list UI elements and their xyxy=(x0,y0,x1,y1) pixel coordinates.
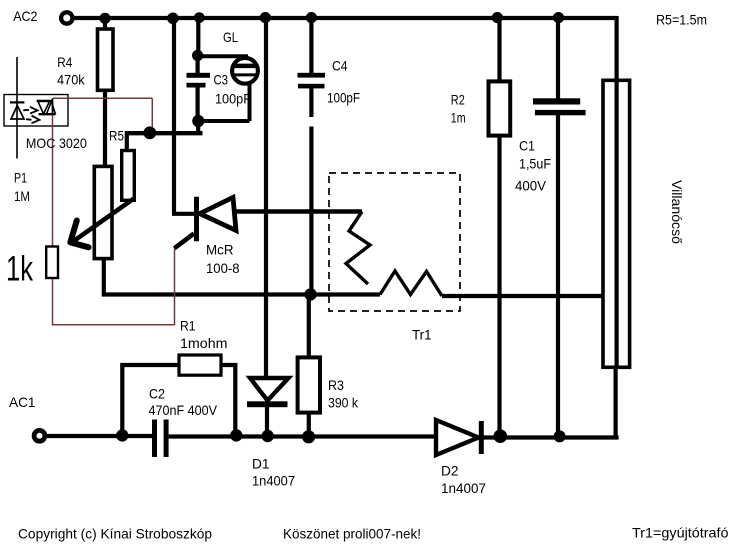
wire R5 top horizontal xyxy=(127,131,203,135)
svg-text:1,5uF: 1,5uF xyxy=(519,156,551,172)
optocoupler triac triangle A xyxy=(47,102,56,114)
wire flash tube top feed xyxy=(614,16,618,80)
svg-text:C3: C3 xyxy=(214,72,229,88)
resistor R3 body xyxy=(298,357,320,412)
svg-text:1M: 1M xyxy=(14,188,30,204)
resistor R2 body xyxy=(489,81,511,135)
wire trigger rail (P1 bottom to Tr1) xyxy=(104,259,380,295)
wire trigger rail right to tube xyxy=(442,294,602,298)
capacitor C2 left plate xyxy=(152,420,157,458)
wire GL block lower stub xyxy=(196,121,200,133)
optocoupler triac lead xyxy=(52,98,54,115)
wire R5 top lead xyxy=(125,131,129,151)
svg-text:R5: R5 xyxy=(109,128,124,144)
svg-text:D1: D1 xyxy=(252,456,270,472)
thyristor McR gate lead xyxy=(174,234,194,249)
capacitor C1 bottom plate xyxy=(535,110,586,115)
svg-text:1n4007: 1n4007 xyxy=(252,473,295,489)
svg-text:100pF: 100pF xyxy=(215,91,251,107)
node rail-R2 xyxy=(492,12,503,23)
svg-text:C1: C1 xyxy=(519,138,535,154)
neon lamp GL electrodes xyxy=(233,64,258,69)
svg-text:400V: 400V xyxy=(515,178,547,194)
wire through flash tube xyxy=(614,79,618,369)
svg-text:1mohm: 1mohm xyxy=(180,335,228,351)
wire R3 bottom lead xyxy=(307,412,311,437)
node bottom-R1 left xyxy=(116,429,128,441)
optocoupler triac triangle V xyxy=(38,102,50,114)
svg-text:100-8: 100-8 xyxy=(206,260,240,276)
wire bottom rail middle xyxy=(169,434,437,438)
wire C3 column xyxy=(196,56,200,122)
thyristor McR triangle xyxy=(200,197,236,230)
capacitor C4 top plate xyxy=(298,73,326,78)
transformer Tr1 secondary zigzag xyxy=(380,271,442,296)
wire R2 bottom lead xyxy=(497,135,501,436)
wire bottom rail right xyxy=(482,435,619,439)
capacitor C1 top plate xyxy=(533,98,580,104)
potentiometer wiper arrowhead xyxy=(70,221,88,248)
node bottom-C1 xyxy=(554,430,566,442)
svg-text:Tr1: Tr1 xyxy=(412,327,432,343)
optocoupler MOC3020 box xyxy=(4,95,68,127)
wire bottom rail left xyxy=(46,434,152,438)
svg-text:AC2: AC2 xyxy=(13,8,37,24)
wire C4 top lead xyxy=(309,18,313,73)
neon lamp GL xyxy=(232,58,258,84)
diode D1 triangle xyxy=(250,378,289,401)
node rail-C1 xyxy=(553,12,564,23)
wire cathode column (AC2 to McR) xyxy=(172,18,195,214)
potentiometer wiper arrow xyxy=(73,199,134,242)
svg-text:1n4007: 1n4007 xyxy=(441,480,486,496)
node bottom-R1 right xyxy=(230,429,242,441)
wire R4 top lead xyxy=(103,18,107,30)
red wire MOC down to 1k xyxy=(52,115,54,247)
svg-text:McR: McR xyxy=(206,242,234,258)
flash tube body xyxy=(603,80,630,367)
node trigger-R3 xyxy=(304,288,316,300)
wire GL top lead xyxy=(196,18,200,56)
red wire MOC to R5 node horizontal xyxy=(53,97,152,99)
svg-text:C2: C2 xyxy=(149,385,165,401)
optocoupler LED triangle xyxy=(11,106,24,120)
red wire up to gate xyxy=(174,248,176,325)
wire McR anode to Tr1 xyxy=(236,209,362,213)
svg-text:470nF 400V: 470nF 400V xyxy=(149,402,218,418)
optocoupler input lead xyxy=(16,57,18,159)
thyristor McR cathode bar xyxy=(194,197,199,242)
svg-text:470k: 470k xyxy=(57,71,86,87)
optocoupler LED cathode bar xyxy=(10,101,24,103)
wire C1 top lead xyxy=(556,18,560,99)
wire tube bottom lead xyxy=(613,369,617,438)
svg-text:Copyright (c) Kínai Stroboszkó: Copyright (c) Kínai Stroboszkóp xyxy=(18,526,212,542)
node GL top xyxy=(192,50,203,61)
wire D1 bottom lead xyxy=(265,403,269,436)
resistor 1k body xyxy=(46,247,58,279)
wire C1 bottom lead xyxy=(556,115,560,436)
svg-text:MOC 3020: MOC 3020 xyxy=(26,135,87,151)
svg-text:D2: D2 xyxy=(441,463,459,479)
optocoupler triac top bar xyxy=(37,100,53,102)
optocoupler triac bottom bar xyxy=(39,113,56,115)
transformer Tr1 dashed box xyxy=(329,173,460,311)
svg-text:R5=1.5m: R5=1.5m xyxy=(656,12,707,28)
svg-text:R2: R2 xyxy=(451,92,465,108)
terminal AC2 xyxy=(61,12,72,23)
svg-text:R1: R1 xyxy=(180,318,196,334)
wire GL lamp bottom lead xyxy=(198,82,250,121)
node rail-C4 xyxy=(306,12,317,23)
svg-text:1m: 1m xyxy=(451,110,466,126)
capacitor C2 right plate xyxy=(164,420,169,458)
diode D1 cathode bar xyxy=(247,401,288,407)
svg-text:C4: C4 xyxy=(332,57,348,73)
diode D2 triangle xyxy=(436,420,479,455)
svg-text:100pF: 100pF xyxy=(327,90,360,106)
diode D2 cathode bar xyxy=(479,421,484,454)
capacitor C3 bottom plate xyxy=(187,83,206,88)
resistor R5 body xyxy=(122,151,135,201)
svg-text:Köszönet proli007-nek!: Köszönet proli007-nek! xyxy=(283,526,421,542)
node GL bottom xyxy=(192,115,204,127)
wire C4 bottom with break xyxy=(309,88,313,295)
svg-text:R3: R3 xyxy=(328,377,344,393)
red wire 1k to bottom run xyxy=(53,278,175,325)
wire R1 loop xyxy=(122,365,235,436)
svg-text:390 k: 390 k xyxy=(328,395,359,411)
node R5 top xyxy=(143,126,156,139)
wire R3 top lead xyxy=(307,295,311,358)
terminal AC1 xyxy=(34,430,45,441)
potentiometer P1 body xyxy=(94,166,112,258)
svg-text:AC1: AC1 xyxy=(9,394,36,410)
wire AC2 top rail xyxy=(72,16,617,20)
node bottom-R2 xyxy=(494,429,508,443)
svg-text:Villanócső: Villanócső xyxy=(669,180,685,244)
wire D1 column xyxy=(264,18,268,378)
resistor R4 xyxy=(98,29,114,90)
svg-text:Tr1=gyújtótrafó: Tr1=gyújtótrafó xyxy=(632,525,729,541)
capacitor C4 bottom plate xyxy=(298,84,325,89)
red wire down to R5 node xyxy=(151,98,153,128)
wire GL loop top xyxy=(198,54,248,58)
svg-text:GL: GL xyxy=(223,29,238,45)
wire R2 top lead xyxy=(497,18,501,82)
node rail-GL xyxy=(194,12,205,23)
node bottom-R3 xyxy=(302,430,315,443)
svg-text:1k: 1k xyxy=(6,250,33,289)
node rail-D1 xyxy=(260,12,271,23)
node bottom-D1 xyxy=(262,430,274,442)
capacitor C3 top plate xyxy=(187,73,211,78)
optocoupler light arrow 1 xyxy=(23,109,29,112)
svg-text:P1: P1 xyxy=(14,170,27,186)
optocoupler light arrow 2 xyxy=(26,118,32,121)
svg-text:R4: R4 xyxy=(57,54,72,70)
resistor R1 body xyxy=(179,355,221,375)
transformer Tr1 primary zigzag xyxy=(346,212,370,285)
node rail-cathode xyxy=(167,12,179,24)
node rail-R4 xyxy=(99,13,110,24)
wire R4 bottom to P1 xyxy=(103,90,107,167)
